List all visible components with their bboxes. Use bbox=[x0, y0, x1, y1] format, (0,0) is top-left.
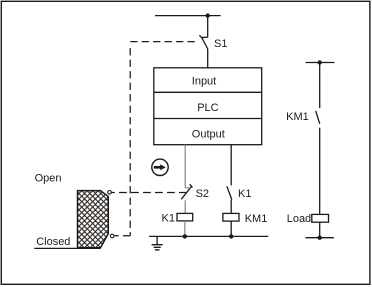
node closed-position contact circle bbox=[110, 234, 114, 238]
load LD1 bbox=[312, 214, 329, 222]
PLC U1 box bbox=[154, 68, 262, 145]
node junction dot K1 coil to bus bbox=[183, 234, 187, 238]
wire from coil KM1 to ground bus bbox=[230, 221, 232, 236]
wire right rail to contact KM1 bbox=[319, 63, 321, 109]
sensor U2 direction indicator circle with arrow bbox=[152, 159, 168, 175]
wire top supply rail bbox=[155, 15, 221, 17]
wire right rail top bar bbox=[306, 62, 335, 64]
wire from Load to bottom bar bbox=[319, 222, 321, 238]
svg-text:KM1: KM1 bbox=[245, 213, 268, 225]
wire from top rail to S1 bbox=[207, 16, 209, 38]
node junction dot KM1 coil to bus bbox=[229, 234, 233, 238]
node junction dot right rail top bbox=[318, 60, 322, 64]
contact KM1 bbox=[316, 111, 320, 124]
coil K1 bbox=[177, 213, 193, 221]
switch S2 bbox=[181, 184, 192, 199]
coil KM1 bbox=[223, 213, 239, 221]
svg-text:Output: Output bbox=[192, 129, 225, 141]
wire grey from coil K1 to ground bus bbox=[184, 221, 186, 237]
node junction dot at top rail bbox=[206, 13, 210, 17]
svg-text:S2: S2 bbox=[196, 188, 209, 200]
valve position sensor block (hatched) bbox=[78, 191, 109, 248]
svg-text:Input: Input bbox=[192, 75, 216, 87]
svg-text:S1: S1 bbox=[214, 38, 227, 50]
contact K1 bbox=[227, 186, 232, 199]
wire from S1 to PLC Input bbox=[207, 49, 209, 68]
svg-text:Open: Open bbox=[35, 173, 62, 185]
svg-text:Load: Load bbox=[287, 213, 311, 225]
wire grey from PLC Input down to S2 bbox=[185, 145, 189, 188]
svg-text:Closed: Closed bbox=[36, 236, 70, 248]
wire from contact K1 to coil KM1 bbox=[230, 200, 232, 214]
wire from PLC Output down to contact K1 bbox=[230, 145, 232, 186]
wire from contact KM1 to Load bbox=[319, 128, 321, 215]
svg-text:K1: K1 bbox=[162, 212, 175, 224]
PLC input/plc divider bbox=[154, 91, 262, 93]
ground bbox=[152, 236, 163, 250]
wire grey from S2 to coil K1 bbox=[184, 200, 186, 213]
wire right rail bottom bar bbox=[306, 237, 334, 239]
PLC plc/output divider bbox=[154, 118, 262, 120]
svg-text:K1: K1 bbox=[238, 188, 251, 200]
node open-position contact circle bbox=[108, 191, 112, 195]
node junction dot right rail bottom bbox=[318, 236, 322, 240]
wire underline from Closed label to sensor block bbox=[34, 247, 100, 249]
svg-text:PLC: PLC bbox=[197, 102, 218, 114]
wire dashed control link from S1 down to closed-position contact bbox=[130, 41, 195, 43]
wire dashed from open-position contact to S2 bbox=[111, 192, 187, 194]
switch S1 bbox=[199, 35, 207, 49]
svg-text:KM1: KM1 bbox=[286, 111, 309, 123]
wire ground bus bbox=[149, 235, 268, 237]
